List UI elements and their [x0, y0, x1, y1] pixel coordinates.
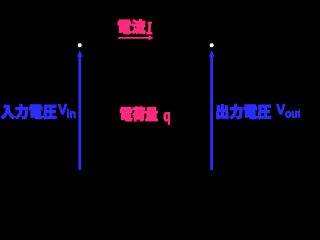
wire: output voltage arrow shaft (right) — [210, 55, 213, 170]
label V output — [276, 104, 285, 114]
current direction arrow under label — [118, 37, 149, 39]
arrowhead of output voltage arrow — [209, 50, 215, 57]
label 電流 (current) — [118, 20, 145, 34]
label subscript out — [285, 110, 301, 118]
label I (current symbol) — [147, 22, 152, 34]
label subscript in — [67, 109, 75, 118]
label 電荷量 (charge) — [120, 107, 157, 121]
node: top terminal dot (left) — [78, 43, 82, 47]
node: top terminal dot (right) — [210, 43, 214, 47]
label q (charge symbol) — [164, 112, 170, 124]
label 入力電圧 (input voltage) — [1, 104, 56, 119]
label 出力電圧 (output voltage) — [217, 104, 271, 119]
label V input — [58, 104, 67, 114]
wire: input voltage arrow shaft (left) — [78, 55, 81, 170]
arrowhead of input voltage arrow — [77, 50, 83, 57]
